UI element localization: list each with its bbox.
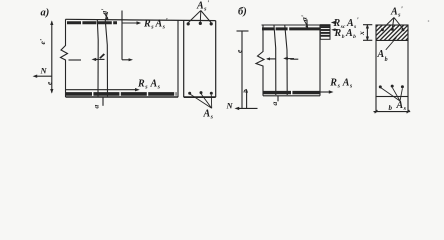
svg-text:b: b (385, 57, 388, 63)
left dimension line a (51, 22, 53, 93)
svg-text:A: A (150, 78, 158, 89)
fan lines to top bars (188, 11, 211, 23)
svg-text:A: A (203, 108, 211, 119)
crack line 2 (105, 12, 107, 96)
svg-text:b: b (389, 104, 393, 112)
small glyph above axis arrow (99, 53, 105, 58)
beam a top reinforcement band (dashed) (67, 21, 117, 24)
svg-text:a: a (270, 102, 279, 106)
beam b bottom band (263, 91, 320, 94)
axis dash right fig b (290, 58, 298, 60)
leader vertical fig b top (306, 20, 308, 30)
svg-text:R: R (329, 77, 337, 88)
svg-text:x: x (357, 31, 366, 36)
svg-text:e': e' (38, 39, 47, 44)
svg-text:': ' (166, 17, 168, 25)
label Ab (377, 49, 388, 63)
beam a left edge with break (61, 19, 68, 97)
beam a bottom edge (66, 96, 179, 98)
arrow RbAb to block (334, 29, 338, 31)
leader vertical for RsAs' and eccentricity line (121, 11, 123, 60)
svg-text:s: s (353, 24, 356, 30)
compression stress block fig b (320, 25, 330, 40)
svg-text:': ' (401, 5, 403, 13)
beam b top edge (262, 24, 321, 26)
svg-text:R: R (143, 18, 151, 29)
hook glyph fig b (244, 90, 247, 93)
svg-text:A: A (342, 77, 350, 88)
stress block stripes (321, 27, 330, 36)
beam b bottom edge (263, 95, 320, 97)
x dimension section b (366, 25, 368, 40)
fan lines to bottom bars (190, 94, 211, 108)
svg-text:': ' (357, 17, 359, 25)
beam b top band (dashed) (262, 27, 292, 30)
svg-text:A: A (390, 6, 398, 17)
svg-text:R: R (137, 78, 145, 89)
b dimension extension lines (375, 97, 377, 113)
dimension a tick below beam (102, 97, 104, 106)
beam b top band solid part (292, 27, 320, 30)
svg-text:a: a (92, 105, 101, 109)
arrow to RsAs' label (122, 22, 139, 24)
label As' section b (390, 5, 403, 18)
svg-text:R: R (334, 28, 342, 39)
top tick fig b dimension (237, 30, 249, 32)
beam a right edge (177, 20, 179, 97)
section a bottom bars (188, 91, 213, 95)
section b outline (376, 25, 408, 97)
label As section b (396, 100, 407, 112)
bottom steel axis line with arrow (66, 89, 137, 91)
svg-text:a': a' (100, 9, 109, 15)
inner dimension line fig b (246, 91, 248, 109)
bottom arrow RsAs fig b (320, 91, 331, 93)
svg-text:б): б) (238, 7, 247, 18)
svg-text:A: A (377, 49, 385, 60)
svg-text:b: b (342, 34, 345, 40)
beam a bottom reinforcement band (66, 92, 177, 96)
svg-text:A: A (196, 0, 204, 11)
section a top bars (187, 22, 213, 26)
dimension a tick below beam b (277, 96, 279, 101)
hatch bottom boundary (376, 39, 408, 41)
section a bottom edge (184, 96, 216, 98)
svg-text:N: N (226, 101, 234, 111)
axis line from break fig b (267, 58, 276, 60)
label RscAs' (333, 17, 359, 31)
section b bottom bars (379, 85, 404, 89)
fan lines to section b bottom bars (381, 88, 403, 101)
svg-text:': ' (207, 0, 209, 7)
leader arrow for a' (105, 13, 107, 18)
axis arrow at crack fig b (285, 58, 294, 60)
label As' top of section a (196, 0, 209, 12)
beam b right edge (319, 25, 321, 96)
Ab leader (386, 38, 397, 50)
svg-text:N: N (40, 66, 48, 76)
beam a top edge (continues to section) (66, 19, 216, 20)
force N arrow fig b (237, 107, 258, 109)
label RsAs (137, 78, 161, 90)
label RbAb (334, 28, 357, 40)
b dimension line (374, 111, 411, 113)
b dimension ticks (375, 110, 378, 113)
section a outline (184, 20, 216, 97)
crack line 2 fig b (285, 26, 287, 96)
crack line 1 fig b (274, 26, 276, 96)
force N arrow (35, 75, 52, 77)
beam b left edge with break (256, 25, 264, 96)
section b top bars (381, 28, 405, 32)
svg-text:A: A (396, 100, 404, 111)
svg-text:A: A (155, 18, 163, 29)
arrow RscAs' to block (333, 22, 336, 24)
axis arrow at crack (94, 58, 105, 60)
left dimension line fig b (241, 31, 243, 108)
svg-text:b: b (353, 34, 356, 40)
svg-text:A: A (345, 28, 353, 39)
label As bottom of section a (203, 108, 214, 120)
eccentricity point arrow (122, 59, 131, 61)
section b compression hatch (376, 25, 408, 40)
label RsAs' (143, 17, 168, 31)
svg-text:a): a) (41, 8, 50, 19)
speck top right (428, 20, 430, 22)
crack line 1 (96, 20, 99, 97)
axis dash from break (69, 59, 82, 61)
fan lines to section b top bars (383, 18, 403, 29)
label RsAs fig b (329, 77, 353, 89)
